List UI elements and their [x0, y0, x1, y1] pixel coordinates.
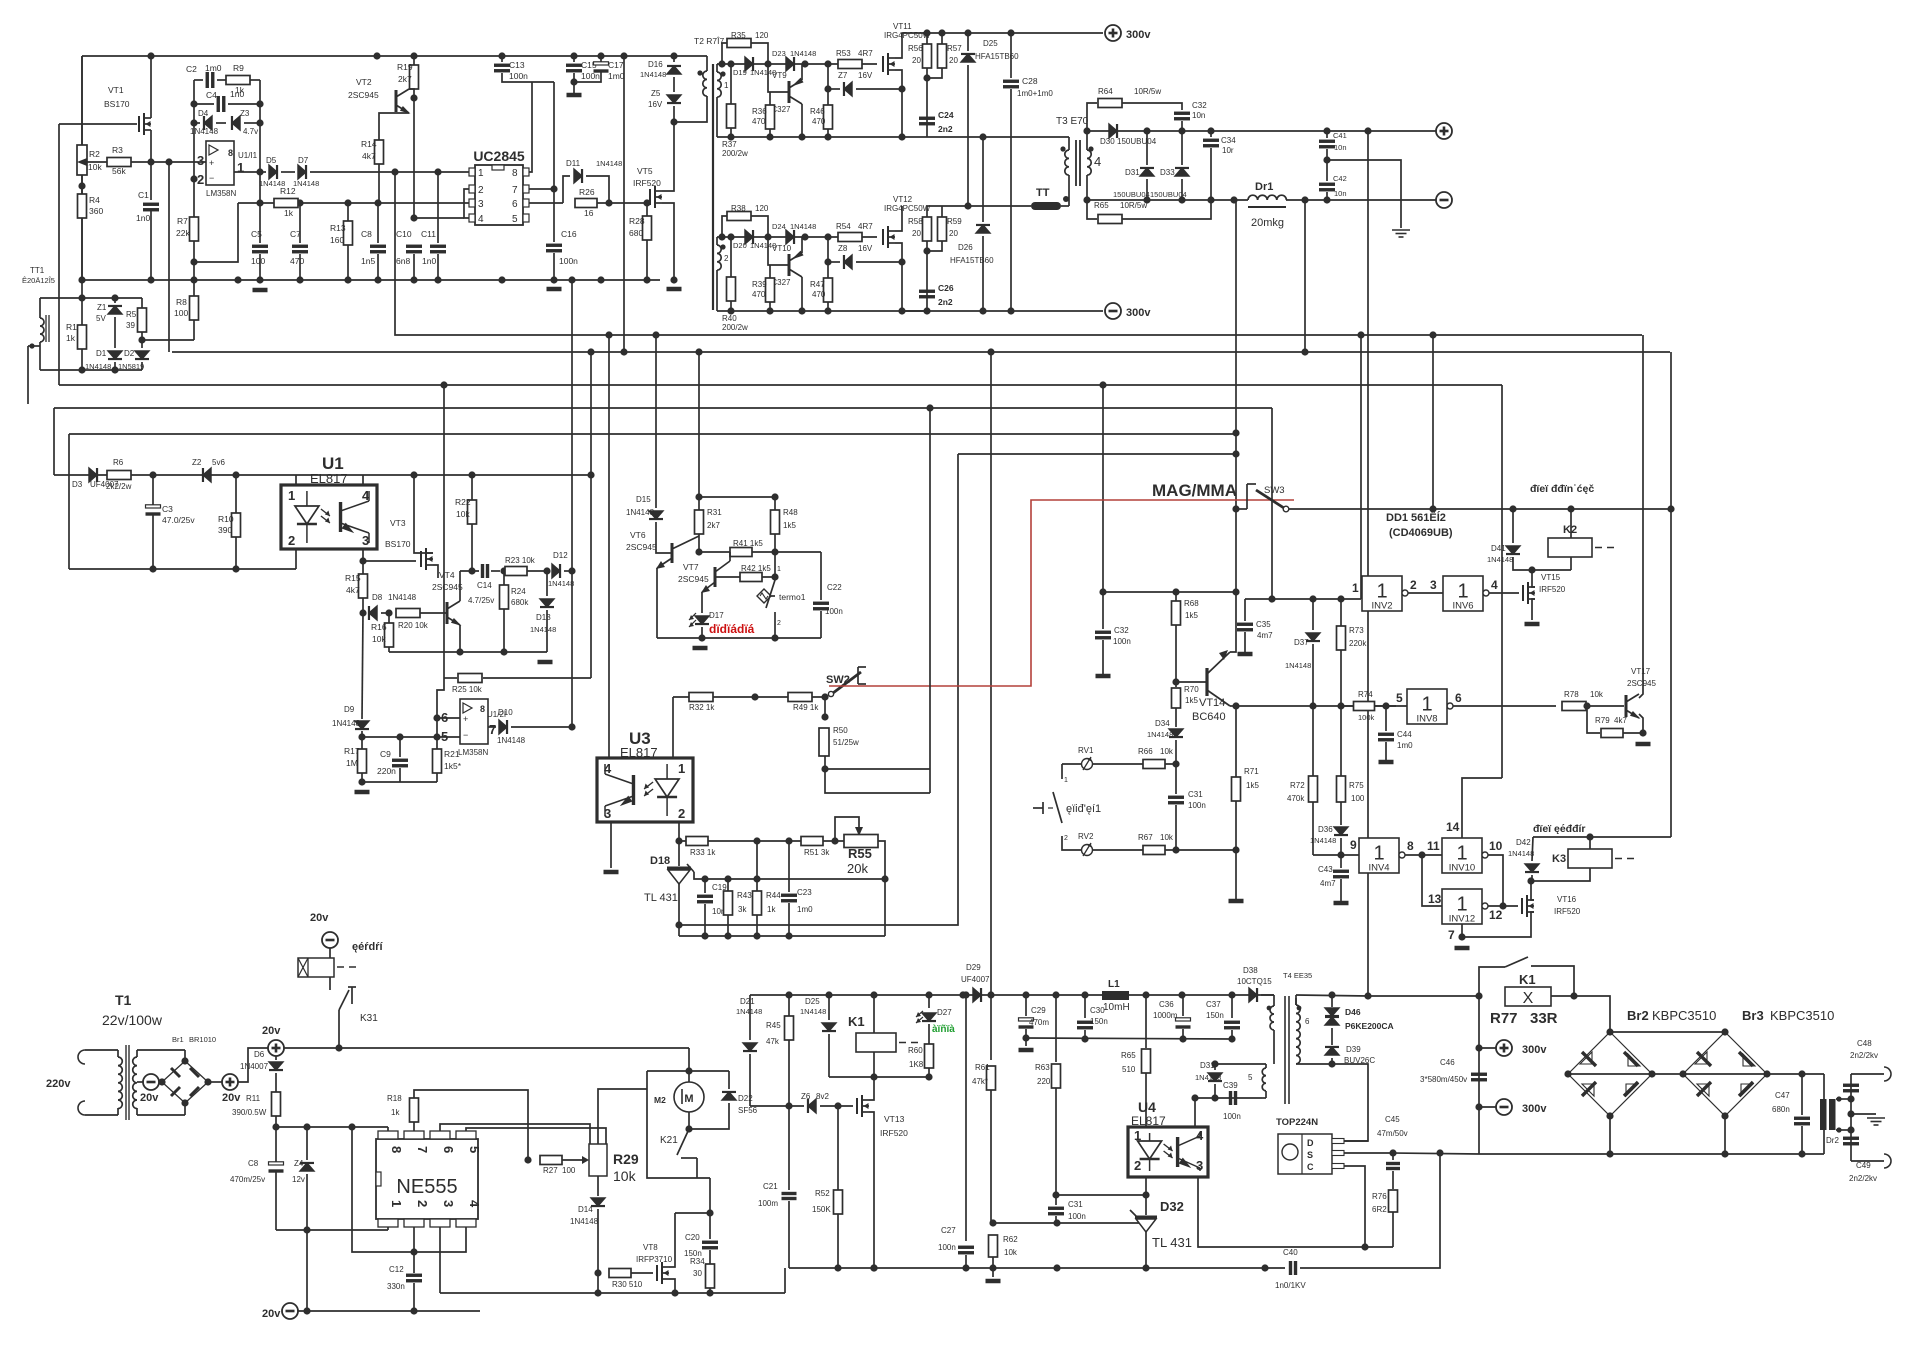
- svg-text:1: 1: [478, 168, 484, 179]
- ground C35: [1238, 652, 1253, 657]
- svg-text:R11: R11: [246, 1094, 261, 1103]
- wire K31 fixed: [351, 987, 353, 1004]
- svg-text:2n2: 2n2: [938, 124, 953, 134]
- svg-text:C14: C14: [477, 581, 492, 590]
- wire U3 pin3 down: [610, 822, 612, 868]
- svg-text:1N4148: 1N4148: [736, 1007, 762, 1016]
- svg-text:R48: R48: [783, 508, 798, 517]
- wire VT7 collector up: [729, 552, 731, 561]
- wire D37 top: [1312, 599, 1314, 630]
- resistor R9 1k: [226, 76, 250, 85]
- capacitor C22 100n: [813, 603, 829, 609]
- wire D13 top: [546, 571, 548, 596]
- svg-text:VT3: VT3: [390, 518, 406, 528]
- resistor R56 20: [923, 44, 932, 68]
- capacitor C13 100n: [494, 65, 510, 71]
- svg-text:100n: 100n: [1188, 801, 1206, 810]
- svg-text:T4 EE35: T4 EE35: [1283, 971, 1312, 980]
- resistor R63 220: [1052, 1064, 1061, 1088]
- svg-text:100n: 100n: [559, 256, 578, 266]
- junction D37-R72: [1309, 702, 1316, 709]
- wire VT14 collector diag: [1207, 690, 1230, 706]
- wire out top: [1850, 1074, 1852, 1099]
- svg-text:4: 4: [1196, 1128, 1204, 1143]
- resistor R28 680: [643, 216, 652, 240]
- wire M2 stub bottom: [688, 1112, 690, 1129]
- svg-text:4: 4: [1491, 578, 1498, 592]
- junction R44 top: [753, 837, 760, 844]
- connector jack out bottom: [1884, 1154, 1891, 1168]
- wire output + line: [1087, 130, 1437, 132]
- LED D17 triangle: [695, 616, 709, 624]
- svg-text:R10: R10: [218, 514, 234, 524]
- wire K21 fixed drop: [696, 1158, 698, 1170]
- wire pedal dash: [1048, 807, 1053, 809]
- svg-text:10r: 10r: [1222, 146, 1234, 155]
- junction output + line: [1207, 127, 1214, 134]
- diode D8 1N4148: [369, 606, 377, 620]
- winding T2 1: [717, 72, 721, 97]
- wire R35 loop right: [751, 43, 768, 64]
- junction gate-R28: [643, 199, 650, 206]
- wire pin5 loop: [466, 1128, 606, 1144]
- svg-text:M: M: [684, 1093, 693, 1105]
- svg-text:16V: 16V: [858, 244, 873, 253]
- svg-text:1m0: 1m0: [1397, 741, 1413, 750]
- svg-text:16: 16: [584, 208, 594, 218]
- capacitor C31 100n aux: [1048, 1208, 1064, 1214]
- wire long vertical x609 to U3 pin4: [608, 335, 610, 758]
- junction pin7: [550, 185, 557, 192]
- junction gnd rail: [434, 276, 441, 283]
- wire VT8 drain: [669, 1213, 675, 1267]
- wire gate line: [717, 236, 877, 238]
- svg-text:100m: 100m: [758, 1199, 778, 1208]
- wire R79 right: [1623, 732, 1643, 734]
- svg-text:LM358N: LM358N: [458, 748, 488, 757]
- svg-text:C24: C24: [938, 110, 954, 120]
- svg-text:C22: C22: [827, 583, 842, 592]
- zener Z7 16V: [844, 82, 852, 96]
- zener Z8 16V: [844, 255, 852, 269]
- wire op-amp output column: [259, 80, 261, 203]
- svg-text:D11: D11: [566, 159, 581, 168]
- wire R25 right: [483, 677, 591, 679]
- capacitor C32 100n: [1095, 632, 1111, 638]
- svg-text:2: 2: [777, 620, 781, 627]
- svg-text:D26: D26: [958, 243, 973, 252]
- svg-text:D16: D16: [648, 60, 663, 69]
- capacitor C8 1n5: [370, 246, 386, 252]
- svg-text:VT15: VT15: [1541, 573, 1561, 582]
- svg-text:6n8: 6n8: [396, 256, 410, 266]
- svg-text:1N4148: 1N4148: [1310, 836, 1336, 845]
- wire pin13 link: [1422, 855, 1442, 906]
- svg-text:1N4148: 1N4148: [1285, 661, 1311, 670]
- resistor R8 100: [190, 296, 199, 320]
- svg-text:VT9: VT9: [772, 71, 787, 80]
- capacitor C4 1n0: [218, 96, 224, 112]
- winding T4 output: [1270, 1006, 1274, 1030]
- wire pedal fixed: [1033, 807, 1043, 809]
- wire C8a bottom: [275, 1172, 277, 1230]
- wire Z4 gnd drop: [306, 1230, 308, 1311]
- wire VT3 source: [433, 565, 438, 578]
- svg-text:Br2: Br2: [1627, 1008, 1649, 1023]
- svg-text:390: 390: [218, 525, 232, 535]
- wire termo sensor link: [771, 595, 775, 597]
- svg-text:VT8: VT8: [643, 1243, 658, 1252]
- svg-text:VT1: VT1: [108, 85, 124, 95]
- svg-text:2: 2: [724, 254, 729, 263]
- svg-text:Z3: Z3: [240, 109, 250, 118]
- svg-text:30: 30: [693, 1269, 702, 1278]
- svg-text:300v: 300v: [1126, 307, 1151, 319]
- wire upper cell to T3: [927, 136, 1069, 138]
- resistor R79 4k7: [1601, 729, 1623, 738]
- wire D11 right: [586, 176, 609, 203]
- svg-text:390/0.5W: 390/0.5W: [232, 1108, 267, 1117]
- junction VT16 drain: [1527, 877, 1534, 884]
- wire pin3 stub: [362, 549, 364, 561]
- capacitor C30 150n: [1077, 1022, 1093, 1028]
- capacitor C41 10n: [1319, 141, 1335, 147]
- transistor VT17 2SC945: [1625, 695, 1628, 717]
- svg-text:D4: D4: [198, 109, 209, 118]
- wire D14 bottom: [597, 1209, 599, 1273]
- ground output: [1867, 1118, 1885, 1125]
- wire primary bottom: [1296, 1063, 1332, 1065]
- svg-text:160: 160: [330, 235, 344, 245]
- wire C11 bottom: [437, 254, 439, 280]
- wire C43 bottom: [1340, 879, 1342, 901]
- resistor R22 10k: [468, 500, 477, 524]
- junction gnd rail: [234, 276, 241, 283]
- wire Dr2 in top: [1823, 1074, 1825, 1099]
- wire R65 left: [1087, 200, 1097, 219]
- wire R16 top: [388, 613, 390, 623]
- wire D26 top: [982, 137, 984, 222]
- svg-text:K1: K1: [1519, 972, 1536, 987]
- ground R71: [1229, 899, 1244, 904]
- junction out top: [1847, 1095, 1854, 1102]
- svg-text:6: 6: [512, 199, 518, 210]
- svg-text:INV12: INV12: [1449, 914, 1475, 925]
- wire K21 to C20: [709, 1178, 711, 1213]
- svg-text:10CTQ15: 10CTQ15: [1237, 977, 1272, 986]
- svg-text:VT10: VT10: [772, 244, 792, 253]
- wire Rsn2 top: [941, 33, 943, 44]
- wire D22 bottom: [689, 1103, 729, 1129]
- svg-text:R61: R61: [975, 1063, 990, 1072]
- svg-text:R1: R1: [66, 322, 77, 332]
- choke Dr2: [1820, 1099, 1827, 1130]
- wire C1 top: [150, 160, 152, 200]
- wire D25 bottom: [967, 65, 969, 206]
- wire R27 right: [562, 1159, 584, 1161]
- junction C36 bottom: [1179, 1035, 1186, 1042]
- wire T1 core b: [128, 1045, 130, 1120]
- wire TT to primary: [1061, 205, 1069, 207]
- wire zener left: [828, 88, 840, 90]
- transistor VT15 IRF520: [1522, 585, 1524, 601]
- junction R32-R49: [751, 693, 758, 700]
- wire R1 bottom: [81, 349, 83, 370]
- junction D9: [358, 733, 365, 740]
- resistor R64 10R/5w: [1098, 99, 1122, 108]
- resistor R76 6R2: [1389, 1190, 1398, 1212]
- svg-text:KBPC3510: KBPC3510: [1770, 1008, 1834, 1023]
- zener Z3 4.7v: [232, 116, 240, 130]
- resistor R4 360: [78, 194, 87, 218]
- svg-text:1N4148: 1N4148: [332, 719, 361, 728]
- svg-text:C32: C32: [1192, 101, 1207, 110]
- svg-text:MAG/MMA: MAG/MMA: [1152, 481, 1237, 500]
- wire Rb bottom: [769, 129, 771, 137]
- wire Dr1 sense column: [1235, 200, 1237, 592]
- IC TOP224N: [1278, 1134, 1332, 1174]
- junction top rail: [670, 52, 677, 59]
- svg-text:2: 2: [197, 172, 204, 187]
- wire Rc bottom: [827, 302, 829, 311]
- wire K31 fixed top: [348, 986, 356, 988]
- wire C43 top: [1340, 855, 1342, 868]
- junction U3 bottom line: [701, 932, 708, 939]
- junction R71 bottom: [1232, 846, 1239, 853]
- junction aux rail: [1081, 991, 1088, 998]
- svg-text:R18: R18: [387, 1094, 402, 1103]
- winding T1 secondary: [133, 1057, 137, 1109]
- junction U3 bottom line: [724, 932, 731, 939]
- junction U1 top line: [149, 471, 156, 478]
- svg-text:680k: 680k: [511, 598, 529, 607]
- diode D2 1N5819: [135, 351, 149, 359]
- svg-text:R34: R34: [690, 1257, 705, 1266]
- svg-text:R46: R46: [810, 107, 825, 116]
- wire D4-Z3: [216, 122, 226, 124]
- junction gnd rail: [296, 276, 303, 283]
- wire TT1 core b: [48, 315, 50, 342]
- inverter output bubble: [1482, 903, 1488, 909]
- resistor R66 10k: [1143, 760, 1165, 769]
- wire C36 top: [1182, 995, 1184, 1016]
- junction output + line: [1178, 127, 1185, 134]
- capacitor C39 100n: [1231, 1091, 1236, 1105]
- svg-text:C11: C11: [421, 229, 436, 239]
- svg-text:2: 2: [478, 185, 484, 196]
- junction D13 top: [543, 567, 550, 574]
- wire R25 riser: [443, 385, 445, 678]
- wire: [1055, 1216, 1057, 1223]
- svg-text:D32: D32: [1160, 1199, 1184, 1214]
- winding T2 2: [717, 245, 721, 270]
- svg-text:47m/50v: 47m/50v: [1377, 1129, 1408, 1138]
- junction Z3 right: [256, 119, 263, 126]
- svg-text:3: 3: [604, 806, 611, 821]
- svg-text:470k: 470k: [1287, 794, 1305, 803]
- junction C14-R23: [500, 567, 507, 574]
- wire pin7 column: [553, 82, 555, 242]
- svg-text:C4: C4: [206, 90, 217, 100]
- svg-text:1N4148: 1N4148: [596, 159, 622, 168]
- junction gnd rail: [374, 276, 381, 283]
- svg-text:INV8: INV8: [1416, 714, 1437, 725]
- junction zener tap: [824, 85, 831, 92]
- svg-text:1: 1: [678, 761, 685, 776]
- capacitor C29 470m: [1019, 1018, 1034, 1021]
- wire T2 primary bottom: [674, 96, 707, 122]
- svg-text:IRF520: IRF520: [1554, 907, 1581, 916]
- junction R41 right: [771, 548, 778, 555]
- junction C20 top: [706, 1209, 713, 1216]
- svg-text:2: 2: [678, 806, 685, 821]
- junction VT1 source-pin3: [147, 158, 154, 165]
- wire R11 bottom: [275, 1116, 277, 1127]
- wire R44 top: [756, 841, 758, 891]
- diode D10 1N4148: [499, 720, 507, 734]
- wire D31b bottom: [1214, 1084, 1216, 1098]
- wire R30-VT8: [631, 1272, 653, 1274]
- junction pin2 riser: [348, 1123, 355, 1130]
- wire VT7 emitter diag: [702, 582, 715, 592]
- diode D20 1N4148: [745, 230, 753, 244]
- wire R24 bottom: [503, 609, 505, 652]
- junction U1 top line: [410, 471, 417, 478]
- junction R71-collector: [1232, 702, 1239, 709]
- capacitor C40 1n0/1KV: [1291, 1261, 1296, 1275]
- wire: [696, 1170, 698, 1178]
- wire D25 top: [967, 33, 969, 51]
- transistor VT14 BC640: [1205, 668, 1208, 696]
- svg-text:R23 10k: R23 10k: [505, 556, 536, 565]
- svg-text:R13: R13: [330, 223, 346, 233]
- wire R2 bottom: [81, 175, 83, 186]
- svg-text:Z7: Z7: [838, 71, 848, 80]
- wire pin3 to VT3 gate: [363, 560, 416, 562]
- junction bus A: [652, 331, 659, 338]
- junction R50 top: [821, 713, 828, 720]
- wire K3 supply line: [1533, 836, 1671, 838]
- junction D32 top: [1142, 1219, 1149, 1226]
- wire cell bottom: [717, 310, 927, 312]
- svg-text:R16: R16: [371, 622, 387, 632]
- svg-text:5: 5: [1248, 1073, 1253, 1082]
- wire C37 top: [1231, 995, 1233, 1018]
- optocoupler U3 EL817: [597, 758, 693, 822]
- terminal -20v: [282, 1303, 298, 1319]
- svg-text:5v6: 5v6: [212, 458, 225, 467]
- svg-text:1: 1: [1457, 581, 1468, 603]
- wire R65b bottom: [1145, 1073, 1147, 1127]
- ground VT15: [1525, 622, 1540, 627]
- wire Dr2 out bottom: [1836, 1129, 1851, 1131]
- svg-text:8: 8: [389, 1146, 404, 1153]
- junction R49 right: [821, 693, 828, 700]
- relay K31: [298, 958, 334, 977]
- ground VT5: [667, 287, 682, 292]
- svg-text:R65: R65: [1094, 201, 1109, 210]
- junction Z5-T2: [670, 118, 677, 125]
- resistor R75 100: [1337, 776, 1346, 802]
- wire K31 coil down: [329, 977, 331, 990]
- wire Br2 bottom: [1609, 1116, 1611, 1154]
- junction C42 bottom: [1323, 196, 1330, 203]
- wire K3 top: [1589, 837, 1591, 849]
- wire C29 bottom: [1025, 1029, 1027, 1038]
- svg-text:Br3: Br3: [1742, 1008, 1764, 1023]
- junction aux gnd: [870, 1264, 877, 1271]
- junction R21 top: [433, 733, 440, 740]
- wire secondary bottom: [1086, 175, 1088, 200]
- wire C23 bottom: [788, 903, 790, 936]
- wire T2 primary top: [706, 56, 708, 71]
- junction bridge bottom: [1606, 1112, 1613, 1119]
- wire pin3 down: [439, 1227, 441, 1293]
- svg-text:3: 3: [1430, 578, 1437, 592]
- wire winding bottom: [716, 270, 718, 311]
- wire R45 top: [788, 995, 790, 1016]
- wire Dr1 core: [1248, 206, 1286, 208]
- wire pin8 to C13: [529, 82, 532, 172]
- junction R77 left: [1475, 992, 1482, 999]
- svg-text:C20: C20: [685, 1233, 700, 1242]
- potentiometer R55 20k: [855, 827, 863, 836]
- wire C22 top link: [775, 551, 821, 553]
- svg-text:10k: 10k: [1160, 747, 1174, 756]
- junction pin7: [1458, 933, 1465, 940]
- wire D16-Z5: [673, 77, 675, 92]
- wire VT13 source: [869, 1112, 874, 1268]
- wire SW2 arm: [833, 672, 861, 693]
- junction U1 top line: [232, 471, 239, 478]
- svg-text:1m0: 1m0: [205, 63, 222, 73]
- wire pin1 stub: [295, 475, 297, 485]
- svg-text:2: 2: [1064, 835, 1068, 842]
- svg-text:R27: R27: [543, 1166, 558, 1175]
- capacitor C8 470m/25v: [269, 1162, 284, 1165]
- diode D19 1N4148: [745, 57, 753, 71]
- wire K2 bottom: [1570, 557, 1572, 570]
- wire R8 bottom: [193, 320, 195, 340]
- svg-text:100n: 100n: [1113, 637, 1131, 646]
- svg-text:7: 7: [512, 185, 518, 196]
- svg-text:8v2: 8v2: [816, 1092, 829, 1101]
- wire TT1 core a: [45, 315, 47, 342]
- svg-text:Z4: Z4: [294, 1159, 304, 1168]
- wire D9 column: [362, 613, 363, 719]
- wire D32 bar: [1135, 1216, 1157, 1219]
- resistor R52 150K: [834, 1190, 843, 1214]
- svg-text:C13: C13: [509, 60, 525, 70]
- svg-text:R66: R66: [1138, 747, 1153, 756]
- svg-text:R15: R15: [345, 573, 361, 583]
- wire R21 bottom: [436, 773, 438, 782]
- junction R30 gnd: [594, 1289, 601, 1296]
- junction R44 crossing: [753, 875, 760, 882]
- wire R79 left: [1587, 706, 1600, 733]
- junction aux gnd: [989, 1264, 996, 1271]
- wire pin4 stub: [362, 475, 364, 485]
- wire U3 pin2 down: [678, 822, 680, 841]
- svg-text:D22: D22: [738, 1094, 753, 1103]
- capacitor C32 10n: [1174, 113, 1190, 119]
- svg-text:Z6: Z6: [801, 1092, 811, 1101]
- svg-text:5: 5: [1396, 691, 1403, 705]
- wire C28 bottom: [1010, 89, 1012, 311]
- svg-text:8: 8: [228, 148, 233, 158]
- junction VT13 source: [870, 1264, 877, 1271]
- wire K21 arm: [677, 1129, 689, 1155]
